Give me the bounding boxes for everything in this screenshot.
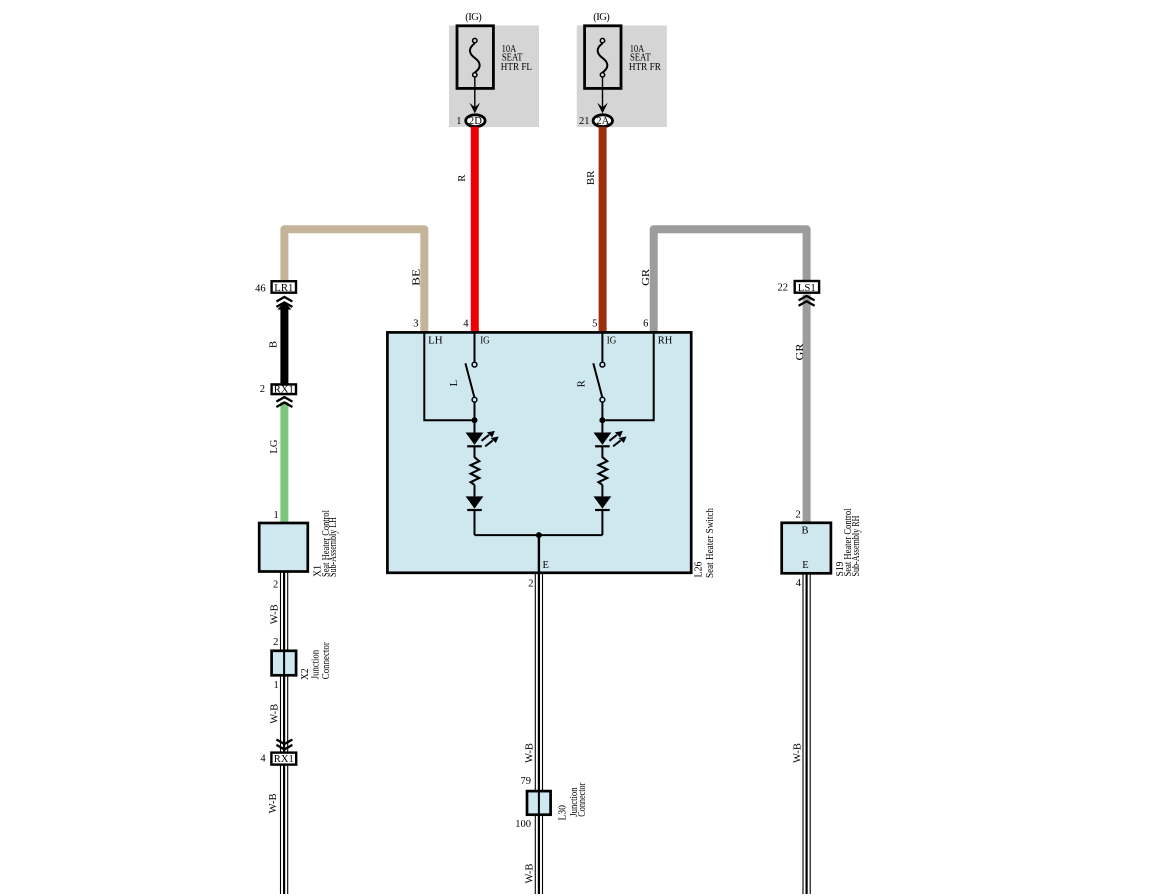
svg-text:HTR FR: HTR FR	[629, 62, 661, 73]
svg-text:W-B: W-B	[270, 604, 281, 624]
wire GR (gray) connector LS1 to S19 pin 2	[803, 295, 811, 524]
svg-text:5: 5	[592, 318, 597, 329]
svg-text:L30: L30	[558, 805, 569, 821]
wire W-B (right) S19 pin 4 to bottom of page	[803, 574, 810, 894]
svg-text:W-B: W-B	[525, 864, 536, 884]
svg-text:RX1: RX1	[274, 754, 294, 765]
wire LG (green) RX1 to X1 pin 1	[280, 402, 288, 523]
wire internal: common return to pin E	[475, 535, 603, 572]
svg-text:W-B: W-B	[793, 743, 804, 763]
svg-text:3: 3	[413, 318, 418, 329]
svg-text:LR1: LR1	[274, 283, 293, 294]
node: left switch output junction	[472, 417, 478, 423]
svg-text:2: 2	[273, 579, 278, 590]
svg-text:Seat Heater Switch: Seat Heater Switch	[705, 507, 716, 578]
svg-text:HTR FL: HTR FL	[501, 62, 532, 73]
svg-text:RX1: RX1	[274, 385, 294, 396]
svg-text:100: 100	[515, 819, 531, 830]
svg-text:BR: BR	[586, 171, 597, 186]
wire R (red) fuse F1 to switch pin 4	[471, 127, 479, 332]
ECU S19 Seat Heater Control Sub-Assembly RH	[782, 523, 831, 574]
svg-text:B: B	[801, 526, 808, 537]
connector 22 LS1	[795, 281, 819, 293]
svg-text:79: 79	[521, 776, 532, 787]
svg-text:21: 21	[579, 116, 590, 127]
svg-text:1: 1	[274, 680, 279, 691]
svg-text:Sub-Assembly LH: Sub-Assembly LH	[328, 517, 339, 577]
svg-text:4: 4	[796, 578, 802, 589]
chevrons above RX1 lower (pointing down)	[276, 740, 292, 750]
svg-text:2A: 2A	[596, 116, 609, 127]
resistor (left)	[471, 446, 480, 485]
fuse F2 10A SEAT HTR FR (fuse block shading)	[577, 26, 667, 128]
svg-text:L: L	[449, 380, 460, 386]
svg-text:2: 2	[260, 384, 265, 395]
chevrons below RX1 upper	[276, 397, 292, 407]
svg-text:L26: L26	[694, 562, 705, 578]
wire internal: pin 6 (RH) to right switch output node	[605, 333, 653, 420]
switch R (right, pin 5 IG)	[593, 333, 605, 418]
node E common junction	[536, 532, 542, 538]
svg-text:(IG): (IG)	[465, 12, 482, 23]
svg-text:2: 2	[273, 637, 278, 648]
svg-text:GR: GR	[795, 344, 806, 361]
connector oval 21 2A	[593, 115, 612, 127]
junction connector L30	[527, 790, 551, 815]
seat heater switch L26 box border	[387, 332, 691, 572]
svg-text:Connector: Connector	[321, 642, 332, 679]
ECU X1 Seat Heater Control Sub-Assembly LH	[259, 523, 308, 572]
svg-text:LG: LG	[269, 439, 280, 453]
wire internal: pin 3 (LH) to left switch output node	[424, 333, 471, 420]
svg-text:IG: IG	[480, 335, 490, 346]
svg-text:LH: LH	[428, 335, 443, 346]
connector 4 RX1 (lower)	[271, 753, 296, 765]
svg-text:E: E	[543, 560, 549, 571]
node: right switch output junction	[599, 417, 605, 423]
chevrons below LS1	[799, 296, 815, 306]
wire BE (tan) connector LR1 to switch pin 3	[284, 229, 424, 332]
fuse F1 body	[457, 26, 493, 89]
svg-text:Connector: Connector	[577, 782, 588, 816]
junction connector X2	[272, 650, 297, 676]
wire BR (brown) fuse F2 to switch pin 5	[599, 127, 607, 332]
svg-text:X2: X2	[300, 668, 311, 680]
connector 46 LR1	[272, 281, 296, 293]
svg-text:R: R	[457, 175, 468, 182]
LED indicator (left)	[466, 420, 499, 446]
svg-text:B: B	[269, 341, 280, 348]
chevrons below LR1	[276, 297, 292, 307]
svg-text:Sub-Assembly RH: Sub-Assembly RH	[851, 515, 862, 576]
svg-text:6: 6	[643, 318, 648, 329]
svg-text:4: 4	[463, 318, 469, 329]
svg-text:4: 4	[260, 754, 266, 765]
svg-text:1: 1	[273, 510, 278, 521]
switch L (left, pin 4 IG)	[465, 333, 477, 418]
resistor (right)	[599, 446, 608, 485]
wire B (black) LR1 to RX1 with arrowhead	[277, 302, 291, 384]
svg-text:2: 2	[528, 579, 533, 590]
fuse F2 arrow to connector	[597, 77, 608, 113]
svg-text:W-B: W-B	[268, 793, 279, 813]
svg-text:22: 22	[778, 283, 789, 294]
wire GR (gray) switch pin 6 to connector LS1	[654, 229, 807, 332]
fuse F1 10A SEAT HTR FL (fuse block shading)	[449, 26, 539, 128]
svg-text:E: E	[802, 560, 808, 571]
svg-text:BE: BE	[411, 269, 422, 286]
svg-text:R: R	[577, 380, 588, 387]
diode (left)	[466, 485, 484, 535]
svg-text:RH: RH	[658, 335, 673, 346]
diode (right)	[594, 485, 612, 535]
svg-text:2D: 2D	[469, 116, 482, 127]
connector 2 RX1 (upper)	[272, 384, 296, 394]
svg-text:1: 1	[456, 116, 461, 127]
fuse F1 arrow to connector	[470, 77, 481, 113]
svg-text:W-B: W-B	[525, 743, 536, 763]
wire W-B (middle) switch pin 2 (E) to bottom of page	[535, 574, 542, 895]
LED indicator (right)	[594, 420, 627, 446]
connector oval 1 2D	[466, 115, 485, 127]
svg-text:IG: IG	[607, 335, 617, 346]
seat heater switch L26 box fill	[387, 332, 691, 572]
svg-text:2: 2	[796, 509, 801, 520]
svg-text:W-B: W-B	[270, 704, 281, 724]
svg-text:(IG): (IG)	[593, 12, 610, 23]
svg-text:46: 46	[255, 283, 266, 294]
svg-text:GR: GR	[641, 269, 652, 286]
fuse F2 body	[585, 26, 621, 89]
svg-text:LS1: LS1	[798, 283, 816, 294]
wire W-B (left) X1 pin 2 to bottom of page	[281, 572, 288, 895]
